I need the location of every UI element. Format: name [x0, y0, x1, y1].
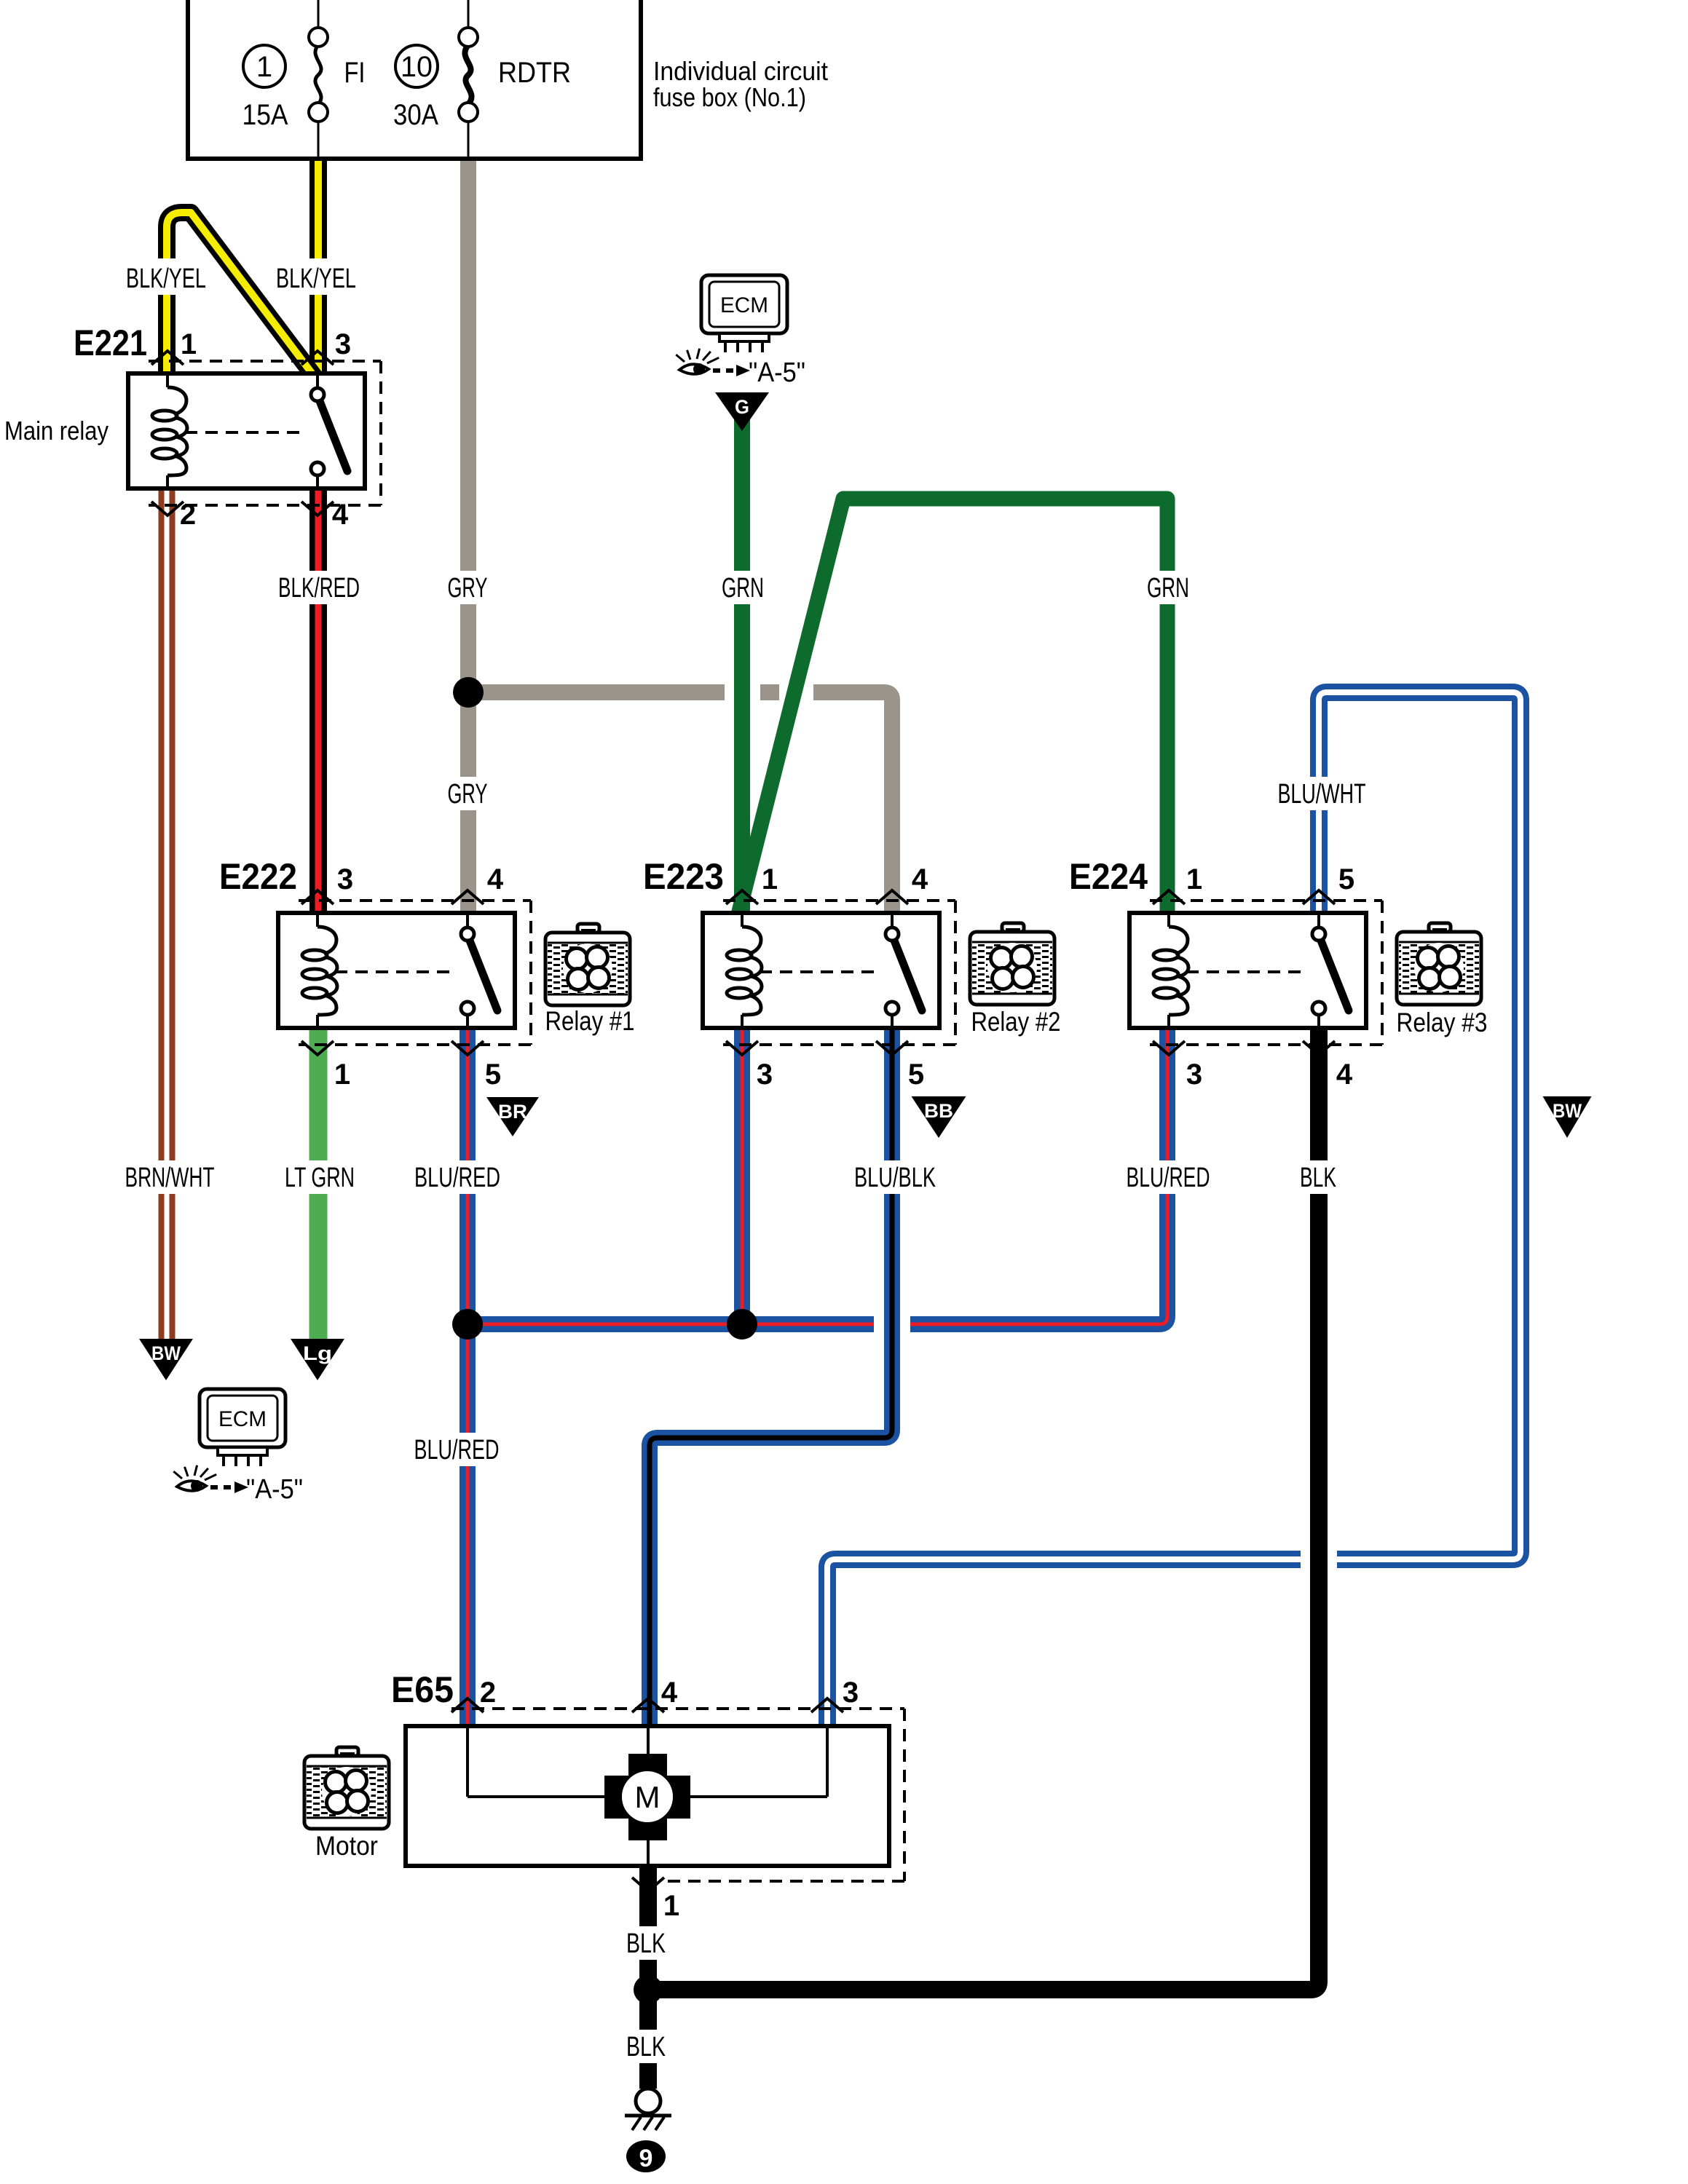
wire BLK from E224 pin 4 down and left to motor ground junction	[648, 1026, 1319, 1990]
svg-text:Relay #1: Relay #1	[545, 1006, 635, 1036]
svg-text:5: 5	[908, 1059, 924, 1091]
svg-text:BB: BB	[924, 1100, 953, 1122]
svg-text:2: 2	[180, 499, 196, 531]
connector triangle BW right	[1543, 1096, 1592, 1138]
fuse FI element	[309, 28, 328, 122]
svg-text:BLK/YEL: BLK/YEL	[276, 264, 356, 294]
fuse number 1 circle	[243, 45, 285, 87]
svg-text:BLU/BLK: BLU/BLK	[854, 1163, 936, 1193]
radiator fan icon Relay #1	[545, 924, 630, 1005]
svg-text:BW: BW	[1553, 1100, 1582, 1122]
wire GRY horizontal from junction to E223 pin 4	[468, 692, 892, 913]
junction dot BLU/RED right	[727, 1309, 757, 1340]
svg-text:BLK: BLK	[626, 2032, 666, 2062]
motor box E65	[406, 1726, 889, 1866]
svg-text:3: 3	[757, 1059, 773, 1091]
label Individual circuit fuse box (No.1)	[653, 56, 828, 112]
svg-text:E224: E224	[1069, 856, 1148, 897]
svg-text:10: 10	[401, 51, 433, 83]
wire BLK from E65 pin 1 down to ground	[639, 1866, 657, 2089]
wire BLU/BLK from E223 pin 5 down, left, down to E65 pin 4	[650, 1026, 892, 1728]
svg-text:G: G	[735, 396, 749, 418]
connector triangle BB	[912, 1096, 966, 1138]
svg-text:BLU/RED: BLU/RED	[414, 1163, 500, 1193]
fuse number 10 circle	[395, 45, 438, 87]
fuse RDTR leads	[468, 0, 470, 159]
svg-text:BLU/RED: BLU/RED	[1127, 1163, 1210, 1193]
relay E224	[1129, 890, 1382, 1055]
eye symbol and A-5 reference top	[676, 349, 805, 388]
wire GRN from E224 pin 1 up, left, diagonal down to E223 pin 1	[738, 499, 1167, 914]
label GRN right	[1142, 571, 1194, 604]
svg-text:1: 1	[663, 1890, 679, 1922]
svg-text:"A-5": "A-5"	[246, 1474, 303, 1505]
svg-text:15A: 15A	[242, 99, 288, 131]
label BLU/BLK	[849, 1160, 941, 1194]
label BLU/RED under relay1	[409, 1160, 505, 1194]
svg-text:Main relay: Main relay	[4, 416, 109, 446]
label BLU/RED under relay3	[1121, 1160, 1215, 1194]
radiator fan icon Motor	[304, 1747, 389, 1829]
svg-text:ECM: ECM	[218, 1407, 267, 1431]
junction dot BLU/RED left	[452, 1309, 483, 1340]
svg-text:30A: 30A	[393, 99, 438, 131]
notch E65 pin 1	[632, 1878, 664, 1891]
label BLK under relay3	[1295, 1160, 1341, 1194]
label BLK lower	[621, 2030, 671, 2063]
label BRN/WHT	[120, 1160, 219, 1194]
label LT GRN	[280, 1160, 360, 1194]
ECM icon left	[200, 1389, 285, 1466]
svg-text:BLK/YEL: BLK/YEL	[126, 264, 206, 294]
svg-text:3: 3	[843, 1677, 859, 1709]
wire GRN from ECM G triangle down to E223 pin 1	[734, 419, 750, 913]
notch E65 pin 4	[632, 1698, 664, 1712]
svg-text:1: 1	[181, 328, 197, 360]
connector triangle Lg	[291, 1339, 344, 1380]
radiator fan icon Relay #2	[970, 923, 1054, 1005]
svg-text:GRN: GRN	[1147, 573, 1189, 604]
radiator fan icon Relay #3	[1397, 923, 1481, 1005]
motor connector dashed box	[451, 1709, 904, 1881]
svg-text:Relay #2: Relay #2	[971, 1007, 1061, 1037]
label BLK/RED	[273, 571, 365, 604]
individual circuit fuse box No.1	[188, 0, 641, 159]
svg-text:9: 9	[639, 2145, 653, 2172]
svg-text:FI: FI	[344, 57, 366, 89]
svg-text:2: 2	[480, 1677, 496, 1709]
relay E223	[703, 890, 955, 1055]
svg-text:Lg: Lg	[303, 1342, 332, 1364]
svg-text:BLU/WHT: BLU/WHT	[1278, 779, 1366, 810]
wire BLU/RED from E222 pin 5 down through junction to E65 pin 2	[460, 1026, 476, 1728]
svg-text:BLK: BLK	[626, 1928, 666, 1959]
svg-text:3: 3	[1186, 1059, 1202, 1091]
svg-text:E222: E222	[219, 856, 297, 897]
svg-text:BR: BR	[498, 1101, 527, 1123]
svg-text:1: 1	[762, 863, 778, 895]
svg-text:5: 5	[1338, 863, 1354, 895]
wire BLK/YEL from fuse FI down to E221 pin 3	[309, 159, 327, 376]
svg-text:4: 4	[332, 499, 349, 531]
junction dot GRY	[453, 677, 484, 708]
svg-text:Motor: Motor	[315, 1831, 378, 1861]
connector triangle G	[715, 392, 769, 431]
wire GRY from fuse RDTR down to junction and E222 pin 4	[460, 159, 476, 913]
label GRN left	[717, 571, 769, 604]
ECM icon top	[701, 275, 787, 352]
svg-text:E223: E223	[643, 856, 724, 897]
svg-text:GRY: GRY	[448, 573, 488, 604]
label GRY upper	[443, 571, 492, 604]
svg-text:BRN/WHT: BRN/WHT	[125, 1163, 215, 1193]
svg-text:"A-5": "A-5"	[749, 357, 805, 388]
motor M symbol	[604, 1754, 690, 1840]
relay E221 Main relay	[128, 351, 381, 515]
label BLK/YEL left	[121, 258, 211, 295]
notch E65 pin 2	[451, 1698, 484, 1712]
white break in BLU/WHT at BLK crossing	[1301, 1548, 1337, 1571]
wire BLK/YEL jumper from E221 pin 1 up and diagonal to E221 pin 3	[167, 213, 315, 378]
ground symbol	[625, 2089, 671, 2130]
junction dot BLK ground	[634, 1975, 663, 2004]
notch E65 pin 3	[811, 1698, 843, 1712]
wire BLK/RED from E221 pin 4 to E222 pin 3	[309, 486, 327, 914]
svg-text:ECM: ECM	[720, 293, 768, 317]
label GRY lower	[443, 777, 492, 810]
svg-text:4: 4	[1336, 1059, 1353, 1091]
label BLU/WHT top right	[1273, 777, 1370, 810]
white break in GRY at GRN vertical crossing	[725, 683, 760, 703]
svg-text:3: 3	[335, 328, 351, 360]
label BLK/YEL right	[271, 258, 361, 295]
svg-text:4: 4	[487, 863, 504, 895]
svg-text:BLK: BLK	[1300, 1163, 1336, 1193]
svg-text:LT GRN: LT GRN	[285, 1163, 355, 1193]
white break in GRY at GRN diagonal crossing	[779, 683, 813, 703]
white break in BLU/RED horizontal at BLU/BLK crossing	[874, 1313, 910, 1335]
label BLU/RED lower	[409, 1433, 505, 1466]
svg-text:1: 1	[256, 51, 272, 83]
wire BLU/RED from E223 pin 3 down to junction	[734, 1026, 750, 1324]
svg-text:E221: E221	[74, 323, 147, 363]
svg-text:RDTR: RDTR	[498, 57, 571, 89]
fuse RDTR element	[459, 28, 478, 122]
svg-text:4: 4	[661, 1677, 678, 1709]
svg-text:fuse box (No.1): fuse box (No.1)	[653, 82, 806, 112]
wire LT GRN from E222 pin 1 down to Lg triangle	[309, 1026, 328, 1350]
svg-text:M: M	[635, 1780, 660, 1814]
svg-text:Relay #3: Relay #3	[1397, 1008, 1488, 1037]
svg-text:1: 1	[1186, 863, 1202, 895]
label BLK upper	[621, 1926, 671, 1960]
fuse FI leads	[318, 0, 320, 159]
wire BLU/WHT from E224 pin 5 up, right, down, left to E65 pin 3	[827, 692, 1521, 1728]
svg-text:GRN: GRN	[722, 573, 764, 604]
connector triangle BR	[486, 1097, 539, 1136]
svg-text:4: 4	[912, 863, 928, 895]
ground reference 9	[626, 2140, 666, 2172]
svg-text:BW: BW	[151, 1342, 181, 1364]
svg-text:5: 5	[485, 1059, 501, 1091]
svg-text:BLU/RED: BLU/RED	[414, 1435, 500, 1465]
svg-text:3: 3	[337, 863, 353, 895]
wire BRN/WHT from E221 pin 2 down to BW triangle	[159, 486, 175, 1350]
relay E222	[278, 890, 531, 1055]
eye symbol and A-5 reference left	[173, 1465, 303, 1505]
svg-text:BLK/RED: BLK/RED	[278, 573, 360, 604]
svg-text:E65: E65	[391, 1669, 454, 1710]
wire BLU/RED horizontal junction run with corner up to E224 pin 3	[468, 1026, 1167, 1324]
connector triangle BW left	[139, 1339, 193, 1380]
svg-text:Individual circuit: Individual circuit	[653, 56, 828, 86]
svg-text:1: 1	[334, 1059, 350, 1091]
svg-text:GRY: GRY	[448, 779, 488, 810]
